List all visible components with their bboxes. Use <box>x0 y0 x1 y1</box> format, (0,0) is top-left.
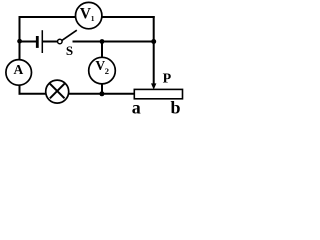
svg-text:a: a <box>132 97 141 116</box>
wire left rail <box>19 16 21 95</box>
svg-text:b: b <box>170 97 180 116</box>
ammeter A circle <box>6 60 32 86</box>
wire bottom rail <box>19 93 135 95</box>
voltmeter V2 label <box>95 58 109 76</box>
battery cell: short thick plate <box>36 36 39 48</box>
wire V2 branch <box>101 42 103 94</box>
wire top rail <box>19 16 155 18</box>
switch S pivot contact <box>58 39 63 44</box>
junction dot right rail tee <box>151 39 156 44</box>
wire switch to right rail segment <box>73 41 155 43</box>
svg-text:S: S <box>66 43 73 58</box>
battery cell: long thin plate <box>41 30 43 53</box>
rheostat body rectangle <box>134 89 182 98</box>
wire battery branch left segment <box>20 41 37 43</box>
svg-text:2: 2 <box>105 66 109 76</box>
wire battery to switch segment <box>43 41 58 43</box>
voltmeter V1 circle <box>76 2 102 28</box>
switch S blade <box>62 30 77 40</box>
rheostat slider arrowhead <box>151 83 156 89</box>
svg-text:P: P <box>163 71 172 86</box>
wire right rail <box>153 16 155 85</box>
lamp circle <box>46 80 69 103</box>
junction dot V2 top tee <box>100 39 105 44</box>
voltmeter V1 label <box>80 5 95 23</box>
lamp X cross <box>50 84 65 99</box>
junction dot battery tee <box>17 39 22 44</box>
svg-text:1: 1 <box>91 14 95 23</box>
voltmeter V2 circle <box>89 57 116 84</box>
svg-text:A: A <box>14 62 24 77</box>
junction dot V2 bottom tee <box>99 91 104 96</box>
